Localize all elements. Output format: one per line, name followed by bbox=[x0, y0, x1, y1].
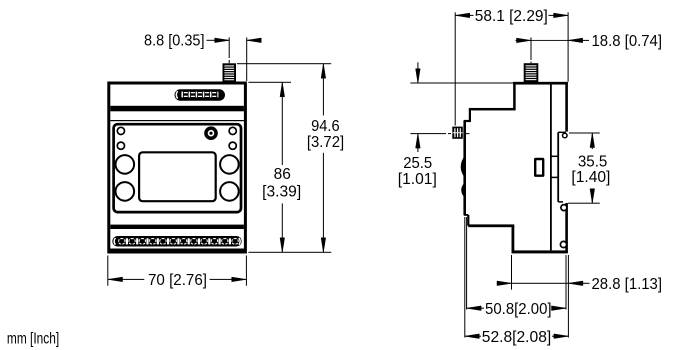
svg-text:[3.72]: [3.72] bbox=[307, 134, 344, 151]
svg-text:50.8[2.00]: 50.8[2.00] bbox=[485, 301, 552, 318]
svg-text:86: 86 bbox=[274, 166, 291, 183]
svg-text:70 [2.76]: 70 [2.76] bbox=[148, 272, 207, 289]
svg-text:52.8[2.08]: 52.8[2.08] bbox=[482, 329, 552, 346]
svg-text:28.8 [1.13]: 28.8 [1.13] bbox=[592, 276, 663, 293]
svg-text:58.1 [2.29]: 58.1 [2.29] bbox=[475, 8, 548, 25]
svg-text:25.5: 25.5 bbox=[403, 155, 432, 172]
svg-text:94.6: 94.6 bbox=[311, 118, 340, 135]
svg-text:[1.40]: [1.40] bbox=[571, 169, 610, 186]
svg-text:[3.39]: [3.39] bbox=[262, 183, 301, 200]
svg-text:mm [Inch]: mm [Inch] bbox=[7, 331, 59, 348]
svg-text:18.8 [0.74]: 18.8 [0.74] bbox=[592, 33, 663, 50]
svg-text:[1.01]: [1.01] bbox=[398, 171, 437, 188]
svg-text:8.8 [0.35]: 8.8 [0.35] bbox=[144, 33, 205, 50]
